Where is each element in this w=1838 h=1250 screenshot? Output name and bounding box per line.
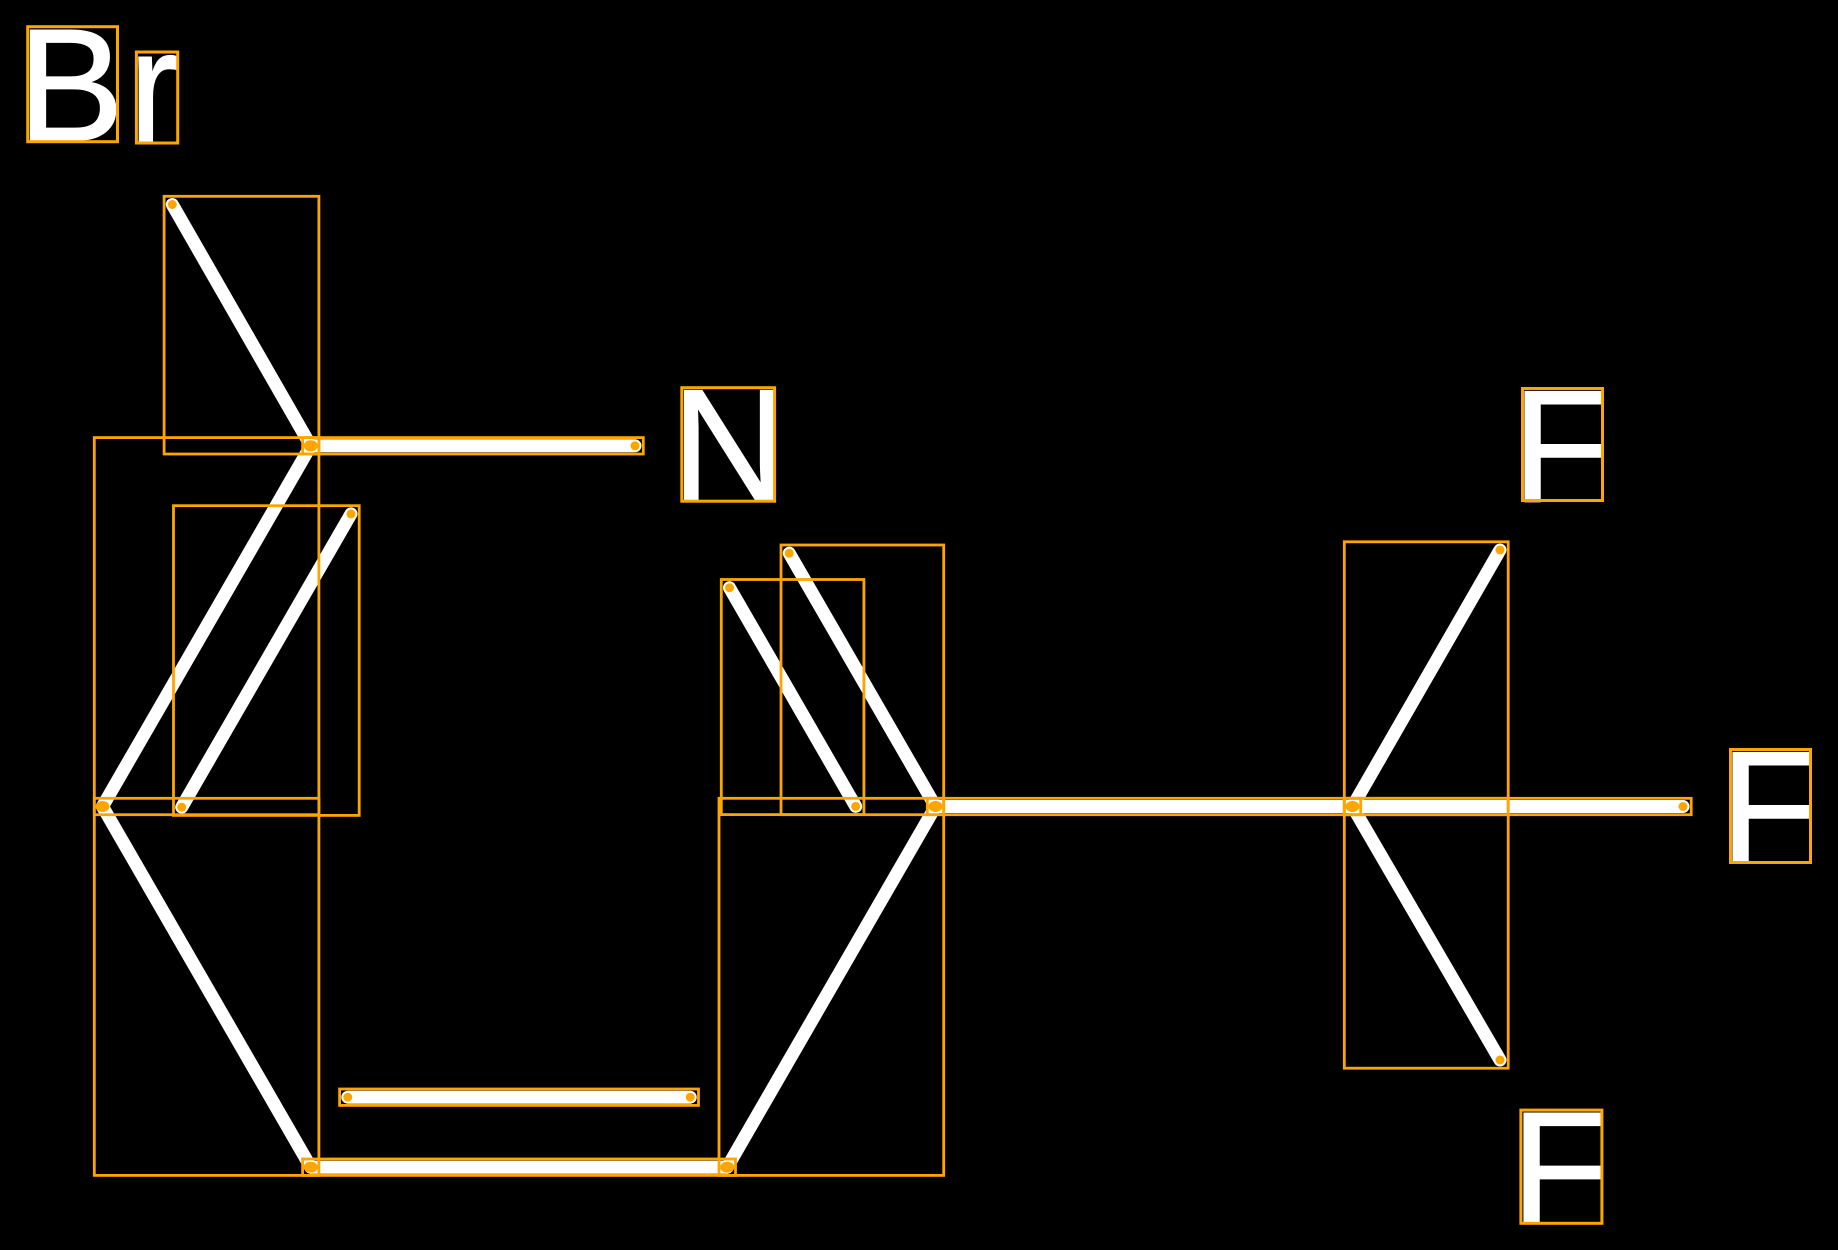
endpoint dot bond C2-N end [631, 441, 640, 450]
bbox of bond Br-C2 [164, 196, 319, 454]
endpoint dot bond C6-C7 end [1346, 801, 1360, 812]
label box F right [1731, 750, 1811, 863]
bbox of bond C4=C5 inner [340, 1089, 699, 1105]
bond C5-C6 [727, 807, 935, 1168]
bond C2=C3 inner [182, 514, 351, 807]
label box N [682, 388, 775, 502]
endpoint dot bond C2=C3 inner start [347, 509, 356, 518]
bbox of bond C2=C3 inner [174, 506, 360, 816]
endpoint dot bond C3-C4 end [304, 1162, 318, 1173]
bond C7-F right [1353, 800, 1684, 813]
bbox of bond C4=C5 main [303, 1159, 736, 1175]
bbox of bond C7-F bottom [1344, 798, 1508, 1068]
svg-text:N: N [672, 356, 788, 535]
label box F top [1523, 389, 1603, 501]
endpoint dot bond N=C6 main start [785, 549, 794, 558]
bond C2=C3 main [103, 446, 311, 807]
label box r [136, 52, 177, 143]
endpoint dot bond C4=C5 main end [720, 1162, 734, 1173]
bond N=C6 inner [730, 588, 856, 807]
bond N=C6 main [789, 553, 935, 806]
bond C3-C4 [103, 807, 311, 1168]
bbox of bond C2=C3 main [94, 438, 319, 815]
endpoint dot bond C7-F right end [1679, 802, 1688, 811]
bbox of bond C7-F right [1344, 798, 1691, 814]
bond C7-F top [1353, 550, 1501, 807]
endpoint dot bond Br-C2 start [168, 200, 177, 209]
label box F bottom [1521, 1110, 1602, 1223]
bond Br-C2 [172, 205, 310, 446]
bond C2-N [311, 439, 635, 452]
bond C4=C5 main [311, 1161, 728, 1174]
bbox of bond C3-C4 [94, 798, 319, 1175]
bbox of bond C2-N [303, 438, 644, 454]
endpoint dot bond C2=C3 inner end [177, 803, 186, 812]
endpoint dot bond C7-F bottom end [1496, 1056, 1505, 1065]
svg-text:F: F [1720, 718, 1818, 897]
endpoint dot bond C5-C6 end [929, 801, 943, 812]
bbox of bond C5-C6 [719, 798, 944, 1175]
endpoint dot bond C4=C5 inner end [686, 1093, 695, 1102]
svg-text:F: F [1512, 357, 1610, 536]
endpoint dot bond C2=C3 main end [96, 801, 110, 812]
endpoint dot bond C7-F top end [1496, 546, 1505, 555]
label box B [28, 27, 118, 142]
bbox of bond N=C6 inner [721, 580, 864, 815]
bbox of bond C6-C7 [927, 798, 1360, 814]
bbox of bond C7-F top [1344, 542, 1508, 815]
endpoint dot bond Br-C2 end [304, 440, 318, 451]
bond C7-F bottom [1353, 807, 1501, 1061]
endpoint dot bond N=C6 inner start [725, 583, 734, 592]
bond C6-C7 [936, 800, 1353, 813]
bbox of bond N=C6 main [781, 545, 944, 815]
endpoint dot bond C4=C5 inner start [343, 1093, 352, 1102]
bond C4=C5 inner [348, 1091, 691, 1104]
endpoint dot bond N=C6 inner end [851, 802, 860, 811]
